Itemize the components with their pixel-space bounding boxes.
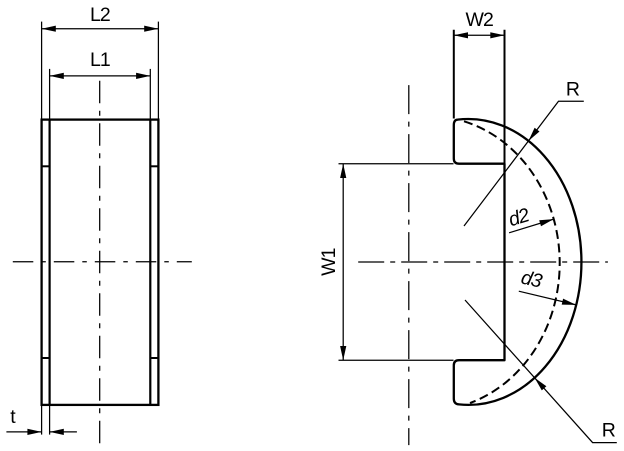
diameter d2: leader line + arrow	[509, 219, 554, 233]
left view: tick lower-right	[150, 357, 158, 359]
dimension L1: dimension line	[50, 75, 151, 77]
left view: inner left edge (L1)	[48, 120, 50, 405]
dimension L2: extension lines	[41, 22, 43, 120]
left view: outer rectangle (L2 x height)	[42, 120, 159, 405]
left view: inner right edge (L1)	[149, 120, 151, 405]
svg-text:W1: W1	[318, 248, 340, 276]
right view: vertical centerline (axis)	[408, 85, 410, 445]
left view: horizontal centerline	[13, 261, 192, 263]
dimension W2: right extension line / face edge	[504, 30, 506, 164]
right view: horizontal centerline	[358, 261, 608, 263]
svg-text:R: R	[566, 79, 580, 101]
dimension W1: dimension line	[342, 164, 344, 360]
dimension t: left arrow + tail	[6, 431, 41, 433]
dimension W2: dimension line	[454, 34, 505, 36]
left view: tick lower-left	[42, 357, 50, 359]
dimension t: right arrow + tail	[50, 431, 77, 433]
dimension W1: extension line bottom	[339, 359, 454, 361]
left view: tick upper-left	[42, 165, 50, 167]
radius R (bottom): leader line	[465, 300, 617, 443]
dimension W1: extension line top	[339, 163, 454, 165]
dimension L1: extension lines	[49, 69, 51, 120]
svg-text:W2: W2	[465, 9, 493, 31]
left view: vertical centerline	[99, 81, 101, 449]
right view: hidden inner surface (dashed arc)	[464, 121, 560, 403]
svg-text:R: R	[602, 420, 616, 442]
left view: tick upper-right	[150, 165, 158, 167]
dimension W2: left extension line	[453, 30, 455, 119]
right view: shell outline	[454, 119, 582, 405]
dimension L2: dimension line	[42, 28, 159, 30]
radius R (top): leader line	[464, 101, 584, 226]
dimension t: extension lines	[41, 405, 43, 435]
diameter d3: leader line + arrow	[519, 291, 576, 305]
svg-text:L1: L1	[90, 49, 110, 71]
svg-text:L2: L2	[90, 4, 110, 26]
